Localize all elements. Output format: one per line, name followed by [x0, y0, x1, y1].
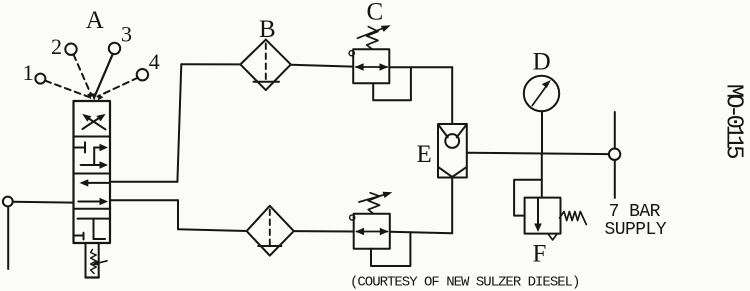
svg-text:SUPPLY: SUPPLY [605, 220, 667, 240]
svg-text:4: 4 [149, 49, 160, 74]
svg-text:(COURTESY OF NEW SULZER DIESEL: (COURTESY OF NEW SULZER DIESEL) [350, 274, 579, 290]
svg-text:MO-0115: MO-0115 [719, 84, 746, 158]
svg-text:2: 2 [51, 34, 62, 59]
svg-text:3: 3 [121, 22, 132, 47]
svg-text:E: E [417, 141, 432, 168]
svg-text:A: A [86, 7, 104, 34]
svg-text:F: F [532, 240, 546, 267]
svg-text:B: B [259, 16, 276, 43]
svg-text:D: D [533, 49, 551, 76]
svg-text:1: 1 [23, 60, 34, 85]
svg-text:C: C [367, 0, 384, 25]
